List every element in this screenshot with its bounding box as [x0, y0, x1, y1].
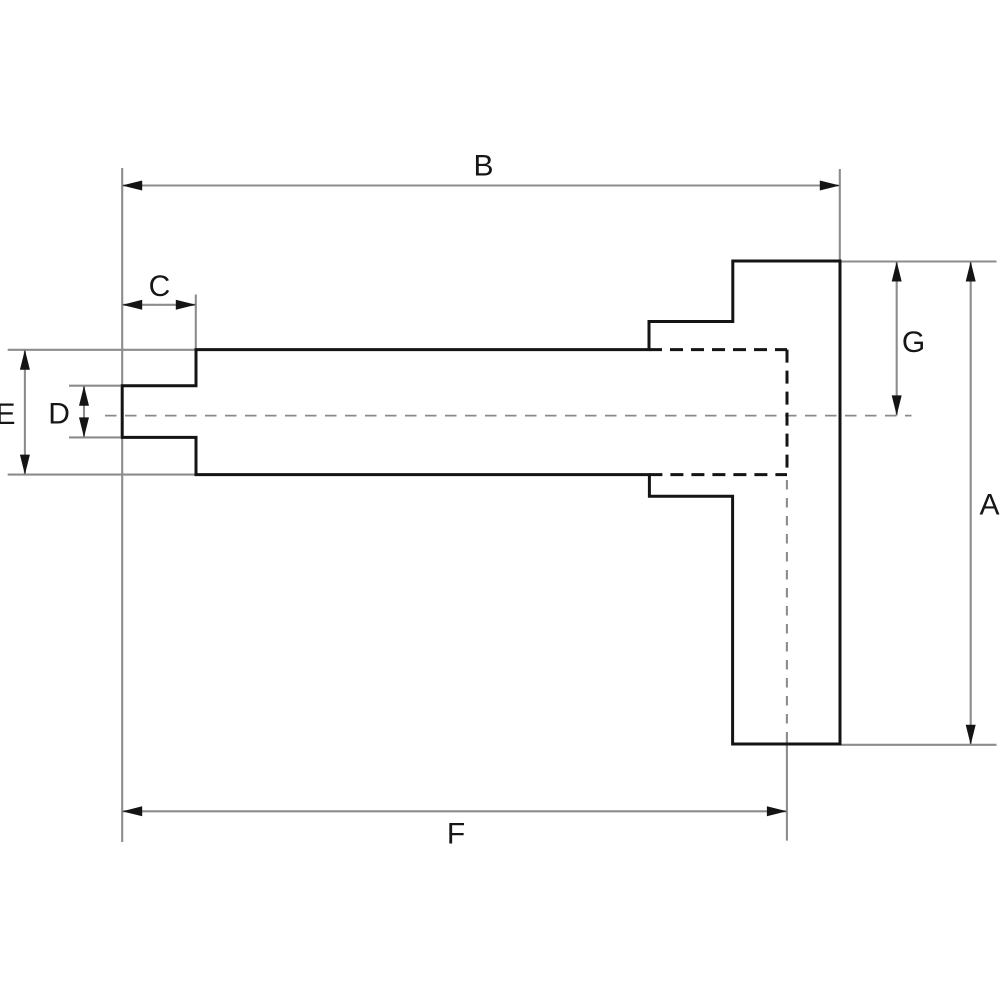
svg-text:B: B [473, 149, 493, 182]
svg-text:G: G [902, 326, 925, 359]
centerline [105, 415, 912, 417]
part outline [122, 261, 840, 744]
hidden edge dashed: shaft bottom inside flange [649, 473, 787, 476]
svg-text:D: D [48, 398, 70, 431]
extension line top-right (y=261.5) [842, 260, 997, 262]
extension line D top (y=385.7) [69, 385, 121, 387]
dimension line E [24, 350, 26, 475]
arrowhead E top [20, 350, 30, 370]
extension line C right (x=196) [195, 295, 197, 349]
dimension line A [970, 262, 972, 745]
arrowhead E bottom [20, 455, 30, 475]
arrowhead B left [122, 181, 142, 191]
arrowhead D top [79, 386, 89, 406]
arrowhead F left [122, 806, 142, 816]
arrowhead C left [122, 300, 142, 310]
dimension line C [122, 304, 196, 306]
arrowhead C right [176, 300, 196, 310]
svg-text:C: C [149, 270, 171, 303]
svg-text:A: A [979, 489, 999, 522]
arrowhead D bottom [79, 417, 89, 437]
extension line D bottom (y=437.4) [69, 436, 121, 438]
arrowhead F right [767, 806, 787, 816]
hidden edge dashed: shaft top inside flange [649, 348, 787, 351]
dimension line D [83, 386, 85, 438]
arrowhead G top [892, 262, 902, 282]
arrowhead G bottom [892, 395, 902, 415]
extension line bottom-right (y=744.8) [842, 744, 997, 746]
arrowhead B right [820, 181, 840, 191]
extension line F right: hidden dashed part (x=786.9) [786, 480, 788, 736]
hidden edge dashed: shaft end inside flange (x=787) [786, 350, 789, 475]
extension line E bottom (y=474.6) [8, 474, 195, 476]
extension line left (x=122) [121, 168, 123, 842]
extension line right of B (x=840) [839, 169, 841, 261]
dimension line G [896, 262, 898, 416]
extension line F right: solid part [786, 736, 788, 841]
dimension line F [122, 810, 787, 812]
arrowhead A top [966, 262, 976, 282]
arrowhead A bottom [966, 725, 976, 745]
svg-text:E: E [0, 398, 16, 431]
extension line E top (y=350) [8, 349, 195, 351]
svg-text:F: F [447, 818, 465, 851]
dimension line B [122, 184, 840, 186]
